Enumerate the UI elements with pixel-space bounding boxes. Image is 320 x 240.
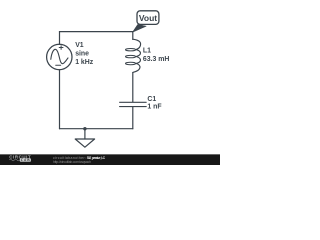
svg-text:Vout: Vout	[139, 13, 157, 23]
svg-text:sine: sine	[75, 51, 89, 58]
svg-text:L1: L1	[143, 48, 151, 55]
svg-text:http://circuitlab.com/csqsach: http://circuitlab.com/csqsach	[53, 160, 91, 164]
svg-text:V1: V1	[75, 42, 84, 49]
svg-text:1 nF: 1 nF	[147, 104, 161, 111]
svg-text:63.3 mH: 63.3 mH	[143, 56, 169, 63]
svg-text:LAB: LAB	[21, 158, 30, 162]
svg-text:C1: C1	[147, 96, 156, 103]
svg-text:1 kHz: 1 kHz	[75, 59, 94, 66]
